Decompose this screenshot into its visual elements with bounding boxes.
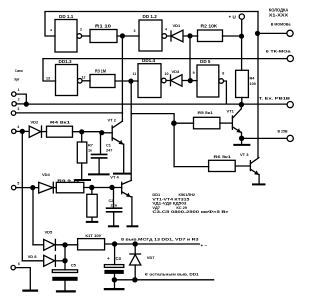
wire: [64, 245, 66, 270]
power +U terminal: [229, 14, 245, 36]
svg-text:1к: 1к: [88, 149, 92, 153]
wire: [174, 122, 193, 124]
svg-text:С4: С4: [116, 256, 122, 261]
node: junction terminals 1-2: [24, 102, 29, 107]
svg-text:13: 13: [46, 77, 50, 81]
svg-text:2: 2: [18, 98, 20, 102]
node: junction VD9 bottom: [132, 277, 137, 282]
capacitor C4 (electrolytic): [104, 244, 123, 288]
svg-text:6 ТК-МОа: 6 ТК-МОа: [266, 50, 292, 54]
svg-text:DD1.4: DD1.4: [142, 58, 155, 63]
svg-text:22н: 22н: [111, 203, 118, 207]
svg-text:DD 1.2: DD 1.2: [143, 14, 158, 19]
terminal: output 4: [278, 130, 294, 142]
resistor R5: [194, 110, 220, 129]
node: junction VD5/K1: [62, 242, 67, 247]
node: junction R10: [89, 185, 94, 190]
capacitor C2: [107, 187, 122, 225]
svg-text:VD3: VD3: [172, 69, 181, 74]
svg-text:VT 3: VT 3: [240, 152, 249, 157]
relay K1: [78, 233, 105, 250]
node: junction C2: [109, 185, 114, 190]
wire: supply rail: [105, 243, 200, 245]
svg-text:2: 2: [80, 28, 82, 32]
svg-text:DD 5: DD 5: [200, 59, 211, 64]
node: junction C1: [99, 130, 104, 135]
svg-text:С3-С5 0800-2500 мкФ×5 Вт: С3-С5 0800-2500 мкФ×5 Вт: [152, 210, 228, 214]
node: junction pin5/VD5 branch: [30, 185, 35, 190]
svg-text:+ U: + U: [229, 15, 237, 20]
wire: vertical to VD5: [32, 188, 34, 245]
resistor R9: [56, 178, 84, 193]
connector pin 3: [11, 107, 122, 115]
terminal: output 2: [266, 50, 294, 62]
svg-text:В МОМОВа: В МОМОВа: [271, 23, 292, 27]
node: terminal1 junction: [255, 31, 260, 36]
svg-text:R2 10К: R2 10К: [201, 23, 218, 28]
svg-text:6: 6: [18, 262, 20, 266]
connector pin 5: [12, 181, 39, 189]
wire: [115, 80, 138, 82]
node: junction C4 bottom: [112, 277, 117, 282]
svg-text:4: 4: [165, 28, 167, 32]
wire: row2 rail to terminal: [43, 58, 287, 60]
connector X1 label: [269, 7, 289, 17]
ground: under C1: [89, 173, 109, 175]
ground: under C2: [109, 225, 118, 227]
node: pin1 marker DD1.1: [51, 30, 52, 31]
ground: under R8: [76, 179, 91, 181]
resistor R3: [90, 69, 115, 88]
svg-text:К1Т 10У: К1Т 10У: [85, 233, 102, 238]
connector pin 6: [11, 262, 30, 290]
diode VD4: [39, 172, 57, 193]
diode VD1: [167, 23, 190, 42]
svg-text:VT 2: VT 2: [108, 117, 117, 122]
svg-text:Т. Ех. РВ1В: Т. Ех. РВ1В: [259, 97, 291, 101]
node: VT1 emitter junction: [239, 136, 244, 141]
node: junction VD9: [133, 241, 138, 246]
wire: [82, 80, 90, 82]
capacitor C1: [92, 133, 113, 173]
svg-text:10: 10: [165, 72, 169, 76]
wire: [223, 35, 242, 37]
node: junction VD3/DD1.5: [188, 78, 193, 83]
svg-text:12: 12: [82, 76, 86, 80]
op-amp U3: inverter DD1.3: [46, 59, 86, 96]
svg-text:VT 4: VT 4: [110, 175, 119, 180]
svg-text:Х1-ХХХ: Х1-ХХХ: [269, 12, 288, 17]
wire: vertical to VT2 collector: [121, 36, 123, 121]
diode VD5: [44, 230, 78, 251]
connector pin 4: [12, 125, 30, 133]
svg-text:R6 5к1: R6 5к1: [214, 154, 232, 159]
terminal: output 3: [259, 97, 294, 108]
svg-text:Сumи: Сumи: [15, 68, 23, 73]
ground: pin 6: [23, 290, 37, 292]
svg-text:3: 3: [17, 107, 19, 111]
diode VD2: [29, 120, 41, 138]
transistor Q1: VT1: [227, 105, 242, 139]
ground: under C4: [105, 288, 124, 290]
wire: +U down to R4: [241, 36, 243, 70]
node: VT1 collector junction: [239, 102, 244, 107]
zener diode VD9: [130, 244, 156, 280]
terminal: output 1: [258, 23, 294, 37]
diode VD7: [28, 254, 63, 266]
op-amp U4: inverter DD1.4: [133, 58, 169, 98]
wire: pin5 vertical corner to VD5: [33, 244, 44, 246]
resistor R4: [42, 120, 73, 138]
svg-text:DD 1.1: DD 1.1: [59, 14, 74, 19]
svg-text:R1 10: R1 10: [95, 23, 112, 28]
capacitor C3 (electrolytic): [52, 270, 77, 291]
wire: VT2 base: [102, 132, 112, 134]
wire: long rail y104: [26, 103, 287, 105]
svg-text:VT1: VT1: [227, 108, 235, 113]
wire: [190, 80, 197, 82]
ground: VT1 emitter: [234, 138, 249, 145]
connector pin 1: [12, 88, 27, 102]
wire: into DD1.3 input: [43, 59, 56, 81]
resistor R8 (vertical): [77, 132, 93, 179]
node: junction R5 feed: [171, 120, 177, 126]
svg-text:С1: С1: [106, 144, 111, 148]
text: left margin labels: [14, 68, 23, 81]
ground: VT2 emitter: [114, 173, 130, 175]
ground: under C3: [57, 290, 75, 292]
svg-text:R4 8к1: R4 8к1: [50, 120, 71, 125]
ground: under R10: [87, 221, 98, 223]
wire: to VT1 base: [220, 122, 232, 124]
svg-text:+: +: [107, 256, 110, 261]
wire: to VT2 base: [73, 131, 102, 133]
connector pin 2: [12, 98, 24, 106]
svg-text:R4: R4: [250, 77, 256, 81]
svg-text:4: 4: [17, 125, 19, 129]
svg-text:VD1: VD1: [173, 23, 182, 28]
wire: [117, 35, 139, 37]
wire: vertical down to R6 row: [174, 166, 209, 168]
wire: to VT4 base: [84, 187, 122, 189]
transistor Q3: VT3: [240, 152, 259, 183]
op-amp U1: inverter DD1.1: [55, 14, 82, 52]
resistor R1: [90, 23, 117, 42]
op-amp U2: inverter DD1.2: [134, 14, 168, 51]
wire: vertical link rows: [189, 36, 191, 81]
svg-text:VD7: VD7: [147, 255, 156, 260]
wire: DD1.5 output down to rail: [224, 81, 227, 104]
node B: junction R3/DD1.4: [128, 79, 133, 84]
svg-text:VD4: VD4: [42, 172, 51, 177]
transistor Q2: VT2: [108, 117, 124, 172]
wire: VD7 row corner: [22, 260, 43, 262]
svg-text:R3 1М: R3 1М: [95, 69, 106, 74]
svg-text:Є остальным выв. DD1: Є остальным выв. DD1: [145, 272, 199, 276]
node: +U junction: [239, 34, 244, 39]
svg-text:R9 9,1к: R9 9,1к: [57, 178, 79, 183]
svg-text:С2: С2: [109, 199, 114, 203]
svg-text:9: 9: [193, 71, 195, 75]
transistor Q4: VT4: [110, 175, 132, 226]
ground: VT4 emitter: [128, 225, 138, 227]
svg-text:DD1.3: DD1.3: [59, 59, 72, 64]
svg-text:100: 100: [250, 82, 256, 86]
node: junction R8: [79, 129, 84, 134]
wire: main right vertical (terminal 1 net): [257, 12, 259, 158]
wire: to VT3 base: [235, 165, 250, 167]
wire: bottom net rail: [114, 279, 213, 281]
wire: vertical to VT4 collector: [130, 81, 132, 180]
node: junction VD1/R2: [187, 33, 192, 38]
svg-text:5: 5: [17, 181, 19, 185]
wire: emitter to terminal: [242, 137, 288, 139]
wire: row1 feedback/top rail: [45, 12, 258, 37]
svg-text:R7: R7: [88, 144, 93, 148]
svg-text:VD5: VD5: [45, 230, 54, 235]
svg-text:Эpir: Эpir: [14, 76, 20, 81]
parts list text: [152, 192, 228, 214]
svg-text:11: 11: [133, 72, 137, 76]
node: junction VD7/C3: [62, 258, 67, 263]
node A: junction R1/DD1.2: [120, 33, 125, 38]
diode VD3: [166, 69, 190, 86]
svg-text:С5: С5: [71, 263, 77, 268]
svg-text:1: 1: [18, 88, 20, 92]
svg-text:+ –: + –: [201, 243, 208, 248]
node: junction pin4/VD7 branch: [20, 129, 25, 134]
svg-text:8: 8: [222, 72, 224, 76]
wire: branch to R5/R6 bases: [131, 114, 174, 167]
svg-text:VD2: VD2: [31, 120, 40, 125]
op-amp U5: inverter DD1.5: [193, 59, 225, 97]
svg-text:8 выв.МСГд 13 DD1, VD7 и R3: 8 выв.МСГд 13 DD1, VD7 и R3: [121, 238, 199, 242]
svg-text:247: 247: [106, 149, 112, 153]
svg-text:В 25В: В 25В: [278, 130, 288, 134]
svg-text:R5 5к1: R5 5к1: [198, 110, 214, 115]
svg-text:3: 3: [134, 29, 136, 33]
svg-text:VD 8: VD 8: [28, 254, 38, 259]
wire: long vertical to VD7: [21, 131, 23, 260]
node: junction C4: [112, 241, 117, 246]
resistor R10 (vertical): [87, 188, 97, 222]
ground: VT3 emitter: [253, 183, 265, 185]
wire: [82, 35, 90, 37]
resistor R4v (from +U): [236, 70, 256, 104]
resistor R6: [209, 154, 236, 172]
resistor R2: [190, 23, 223, 41]
